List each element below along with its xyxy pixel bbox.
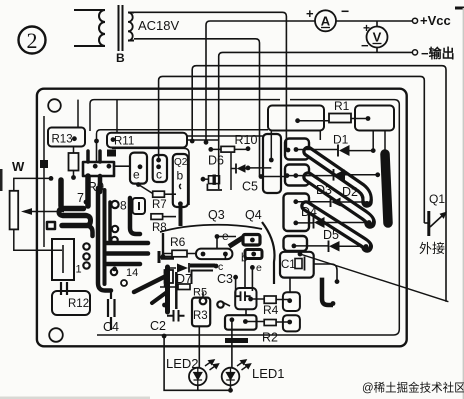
svg-text:D6: D6 [208, 154, 224, 168]
svg-text:R10: R10 [235, 133, 258, 147]
svg-text:Q3: Q3 [208, 208, 225, 222]
svg-text:7: 7 [77, 191, 84, 205]
svg-text:V: V [373, 30, 382, 45]
svg-text:R7: R7 [152, 199, 167, 211]
svg-text:R4: R4 [263, 303, 279, 317]
svg-text:外接: 外接 [419, 241, 445, 256]
svg-text:c: c [156, 168, 162, 182]
svg-text:+Vcc: +Vcc [420, 13, 451, 28]
svg-text:R2: R2 [262, 331, 278, 345]
svg-text:LED1: LED1 [252, 366, 285, 381]
svg-text:C3: C3 [217, 272, 233, 286]
svg-text:C5: C5 [242, 180, 258, 194]
svg-text:AC18V: AC18V [138, 18, 180, 33]
svg-text:−输出: −输出 [421, 46, 455, 61]
svg-text:LED2: LED2 [166, 356, 199, 371]
svg-text:B: B [116, 51, 125, 65]
svg-text:2: 2 [27, 28, 38, 53]
svg-text:R13: R13 [52, 134, 73, 146]
svg-text:Q2: Q2 [174, 157, 188, 168]
svg-text:1: 1 [76, 264, 82, 276]
svg-text:R9: R9 [88, 179, 105, 194]
svg-text:W: W [12, 159, 25, 174]
svg-text:D4: D4 [301, 205, 317, 219]
svg-text:Q1: Q1 [429, 192, 445, 206]
svg-text:D3: D3 [316, 183, 332, 197]
svg-text:R8: R8 [152, 222, 167, 234]
svg-text:D1: D1 [333, 133, 349, 147]
svg-text:8: 8 [120, 199, 127, 213]
svg-text:A: A [321, 14, 331, 29]
svg-text:R6: R6 [170, 235, 186, 249]
svg-text:C1: C1 [281, 259, 296, 271]
svg-text:D5: D5 [323, 228, 339, 242]
svg-text:−: − [361, 38, 369, 53]
svg-text:b: b [241, 253, 247, 265]
svg-text:R11: R11 [114, 136, 134, 148]
svg-text:−: − [341, 3, 349, 19]
svg-text:b: b [177, 169, 184, 183]
svg-text:+: + [363, 21, 370, 35]
svg-text:Q4: Q4 [245, 208, 262, 222]
svg-text:14: 14 [126, 267, 138, 279]
svg-text:R1: R1 [334, 99, 350, 113]
svg-text:R12: R12 [68, 298, 89, 310]
svg-text:R3: R3 [193, 310, 208, 322]
svg-text:C4: C4 [103, 320, 119, 334]
svg-text:@稀土掘金技术社区: @稀土掘金技术社区 [362, 381, 464, 395]
svg-text:C2: C2 [150, 319, 166, 333]
svg-text:+: + [306, 6, 314, 21]
svg-text:e: e [133, 168, 140, 182]
svg-text:e: e [256, 262, 262, 274]
svg-text:D2: D2 [342, 185, 358, 199]
